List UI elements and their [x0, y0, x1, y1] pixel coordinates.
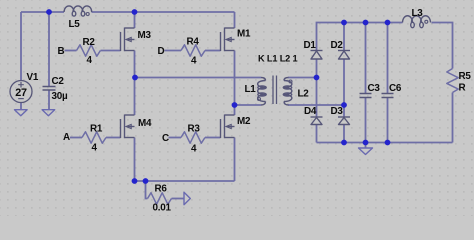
- phase dot L2: [289, 80, 292, 83]
- wire secondary ground stub: [365, 143, 367, 148]
- resistor R4: [181, 45, 205, 56]
- wire D2 cathode up: [343, 23, 345, 51]
- svg-text:R: R: [459, 83, 466, 94]
- wire L3 right to R5 top: [432, 23, 453, 69]
- wire bottom-left rail: [135, 180, 235, 182]
- diode D4: [311, 117, 323, 125]
- wire D1 anode to D4 cathode: [316, 59, 318, 117]
- wire D1 cathode up and top-right rail: [317, 23, 403, 51]
- capacitor C6: [382, 94, 394, 98]
- svg-text:R4: R4: [187, 37, 200, 48]
- wire M3 source to M4 drain: [134, 51, 136, 116]
- inductor L5: [64, 6, 92, 16]
- wire L2 bottom to D2-D3 node: [288, 104, 344, 106]
- svg-text:C: C: [162, 133, 169, 144]
- wire D4 anode down: [316, 125, 318, 143]
- transformer secondary L2: [283, 78, 292, 106]
- wire C2 bottom to ground: [48, 90, 50, 110]
- svg-text:C6: C6: [389, 83, 402, 94]
- wire node B lead: [65, 50, 77, 52]
- wire node C lead: [169, 137, 182, 139]
- wire L2 top to D1-D4 node: [288, 77, 317, 79]
- svg-text:D4: D4: [304, 106, 317, 117]
- svg-text:D2: D2: [331, 40, 344, 51]
- svg-text:M1: M1: [237, 29, 251, 40]
- resistor R6: [148, 193, 172, 204]
- wire node D lead: [165, 50, 182, 52]
- wire left bridge midpoint to L1 top: [135, 77, 261, 79]
- diode D2: [338, 51, 350, 60]
- diode D1: [311, 51, 323, 60]
- svg-text:4: 4: [87, 55, 93, 66]
- svg-text:M2: M2: [237, 116, 251, 127]
- inductor L3: [403, 16, 431, 28]
- junction node dots: [46, 9, 390, 184]
- svg-text:C3: C3: [368, 83, 381, 94]
- ground secondary: [359, 148, 373, 155]
- wire R6 drop from rail: [146, 181, 148, 199]
- wire C3 top: [365, 23, 367, 94]
- wire C6 top: [387, 23, 389, 94]
- svg-text:R5: R5: [459, 71, 472, 82]
- wire C3 bottom: [365, 98, 367, 143]
- mosfet M3: [121, 28, 135, 52]
- mosfet M1: [221, 28, 235, 52]
- wire R1 to M4 gate: [106, 137, 121, 139]
- svg-text:V1: V1: [27, 72, 39, 83]
- wire top-left rail right of L5: [92, 11, 235, 13]
- phase dot L1: [258, 98, 261, 101]
- wire M4 source down: [134, 138, 136, 182]
- wire R5 bottom: [452, 93, 454, 143]
- wire D2 anode to D3 cathode: [343, 59, 345, 117]
- wire D3 anode down: [343, 125, 345, 143]
- wire M1 drain: [234, 12, 236, 28]
- wire R4 to M1 gate: [205, 50, 221, 52]
- svg-text:4: 4: [191, 56, 197, 67]
- svg-text:R6: R6: [155, 184, 168, 195]
- diode D3: [338, 117, 350, 125]
- svg-text:M4: M4: [138, 118, 152, 129]
- svg-text:C2: C2: [52, 76, 65, 87]
- wire R2 to M3 gate: [101, 50, 121, 52]
- svg-text:4: 4: [191, 144, 197, 155]
- svg-text:L5: L5: [69, 19, 81, 30]
- phase dot L5: [86, 13, 89, 16]
- svg-text:R3: R3: [188, 124, 201, 135]
- svg-text:4: 4: [92, 143, 98, 154]
- wire R3 to M2 gate: [205, 137, 221, 139]
- mosfet M2: [221, 115, 235, 139]
- ground below C2: [42, 110, 55, 116]
- svg-text:L3: L3: [412, 8, 424, 19]
- svg-text:D1: D1: [304, 40, 317, 51]
- svg-text:B: B: [58, 46, 65, 57]
- wire left vertical to V1: [20, 12, 22, 81]
- wire M3 drain: [134, 12, 136, 28]
- resistor R5: [447, 69, 458, 93]
- wire M1 source to M2 drain: [234, 51, 236, 116]
- resistor R2: [77, 45, 101, 56]
- ground below V1: [15, 110, 28, 116]
- wire R6 to ground arrow: [172, 198, 185, 200]
- svg-text:D3: D3: [331, 106, 344, 117]
- svg-text:27: 27: [15, 87, 27, 99]
- capacitor C3: [360, 94, 372, 98]
- capacitor C2: [43, 87, 56, 91]
- resistor R1: [82, 132, 106, 143]
- svg-text:M3: M3: [138, 30, 152, 41]
- resistor R3: [181, 132, 205, 143]
- svg-text:K L1 L2 1: K L1 L2 1: [258, 54, 298, 64]
- wire right bridge midpoint to L1 bottom: [235, 104, 262, 106]
- wire M2 source down: [234, 138, 236, 182]
- transformer primary L1: [258, 78, 267, 106]
- wire node A lead: [70, 137, 82, 139]
- wire bottom-right rail: [317, 142, 453, 144]
- svg-text:R2: R2: [83, 37, 96, 48]
- transformer core: [273, 76, 277, 105]
- phase dot L3: [425, 20, 428, 23]
- wire V1 bottom to ground: [20, 103, 22, 111]
- wire C2 top: [48, 12, 50, 87]
- wire top-left rail left of L5: [21, 11, 64, 13]
- svg-text:R1: R1: [90, 124, 103, 135]
- svg-text:L1: L1: [245, 84, 257, 95]
- svg-text:D: D: [158, 46, 165, 57]
- wire C6 bottom: [387, 98, 389, 143]
- voltage source V1: [10, 81, 32, 103]
- ground R6 rotated right: [184, 192, 190, 204]
- svg-text:0.01: 0.01: [153, 203, 172, 214]
- svg-text:A: A: [63, 132, 70, 143]
- mosfet M4: [121, 115, 135, 139]
- svg-text:L2: L2: [298, 89, 310, 100]
- svg-text:30µ: 30µ: [52, 91, 68, 102]
